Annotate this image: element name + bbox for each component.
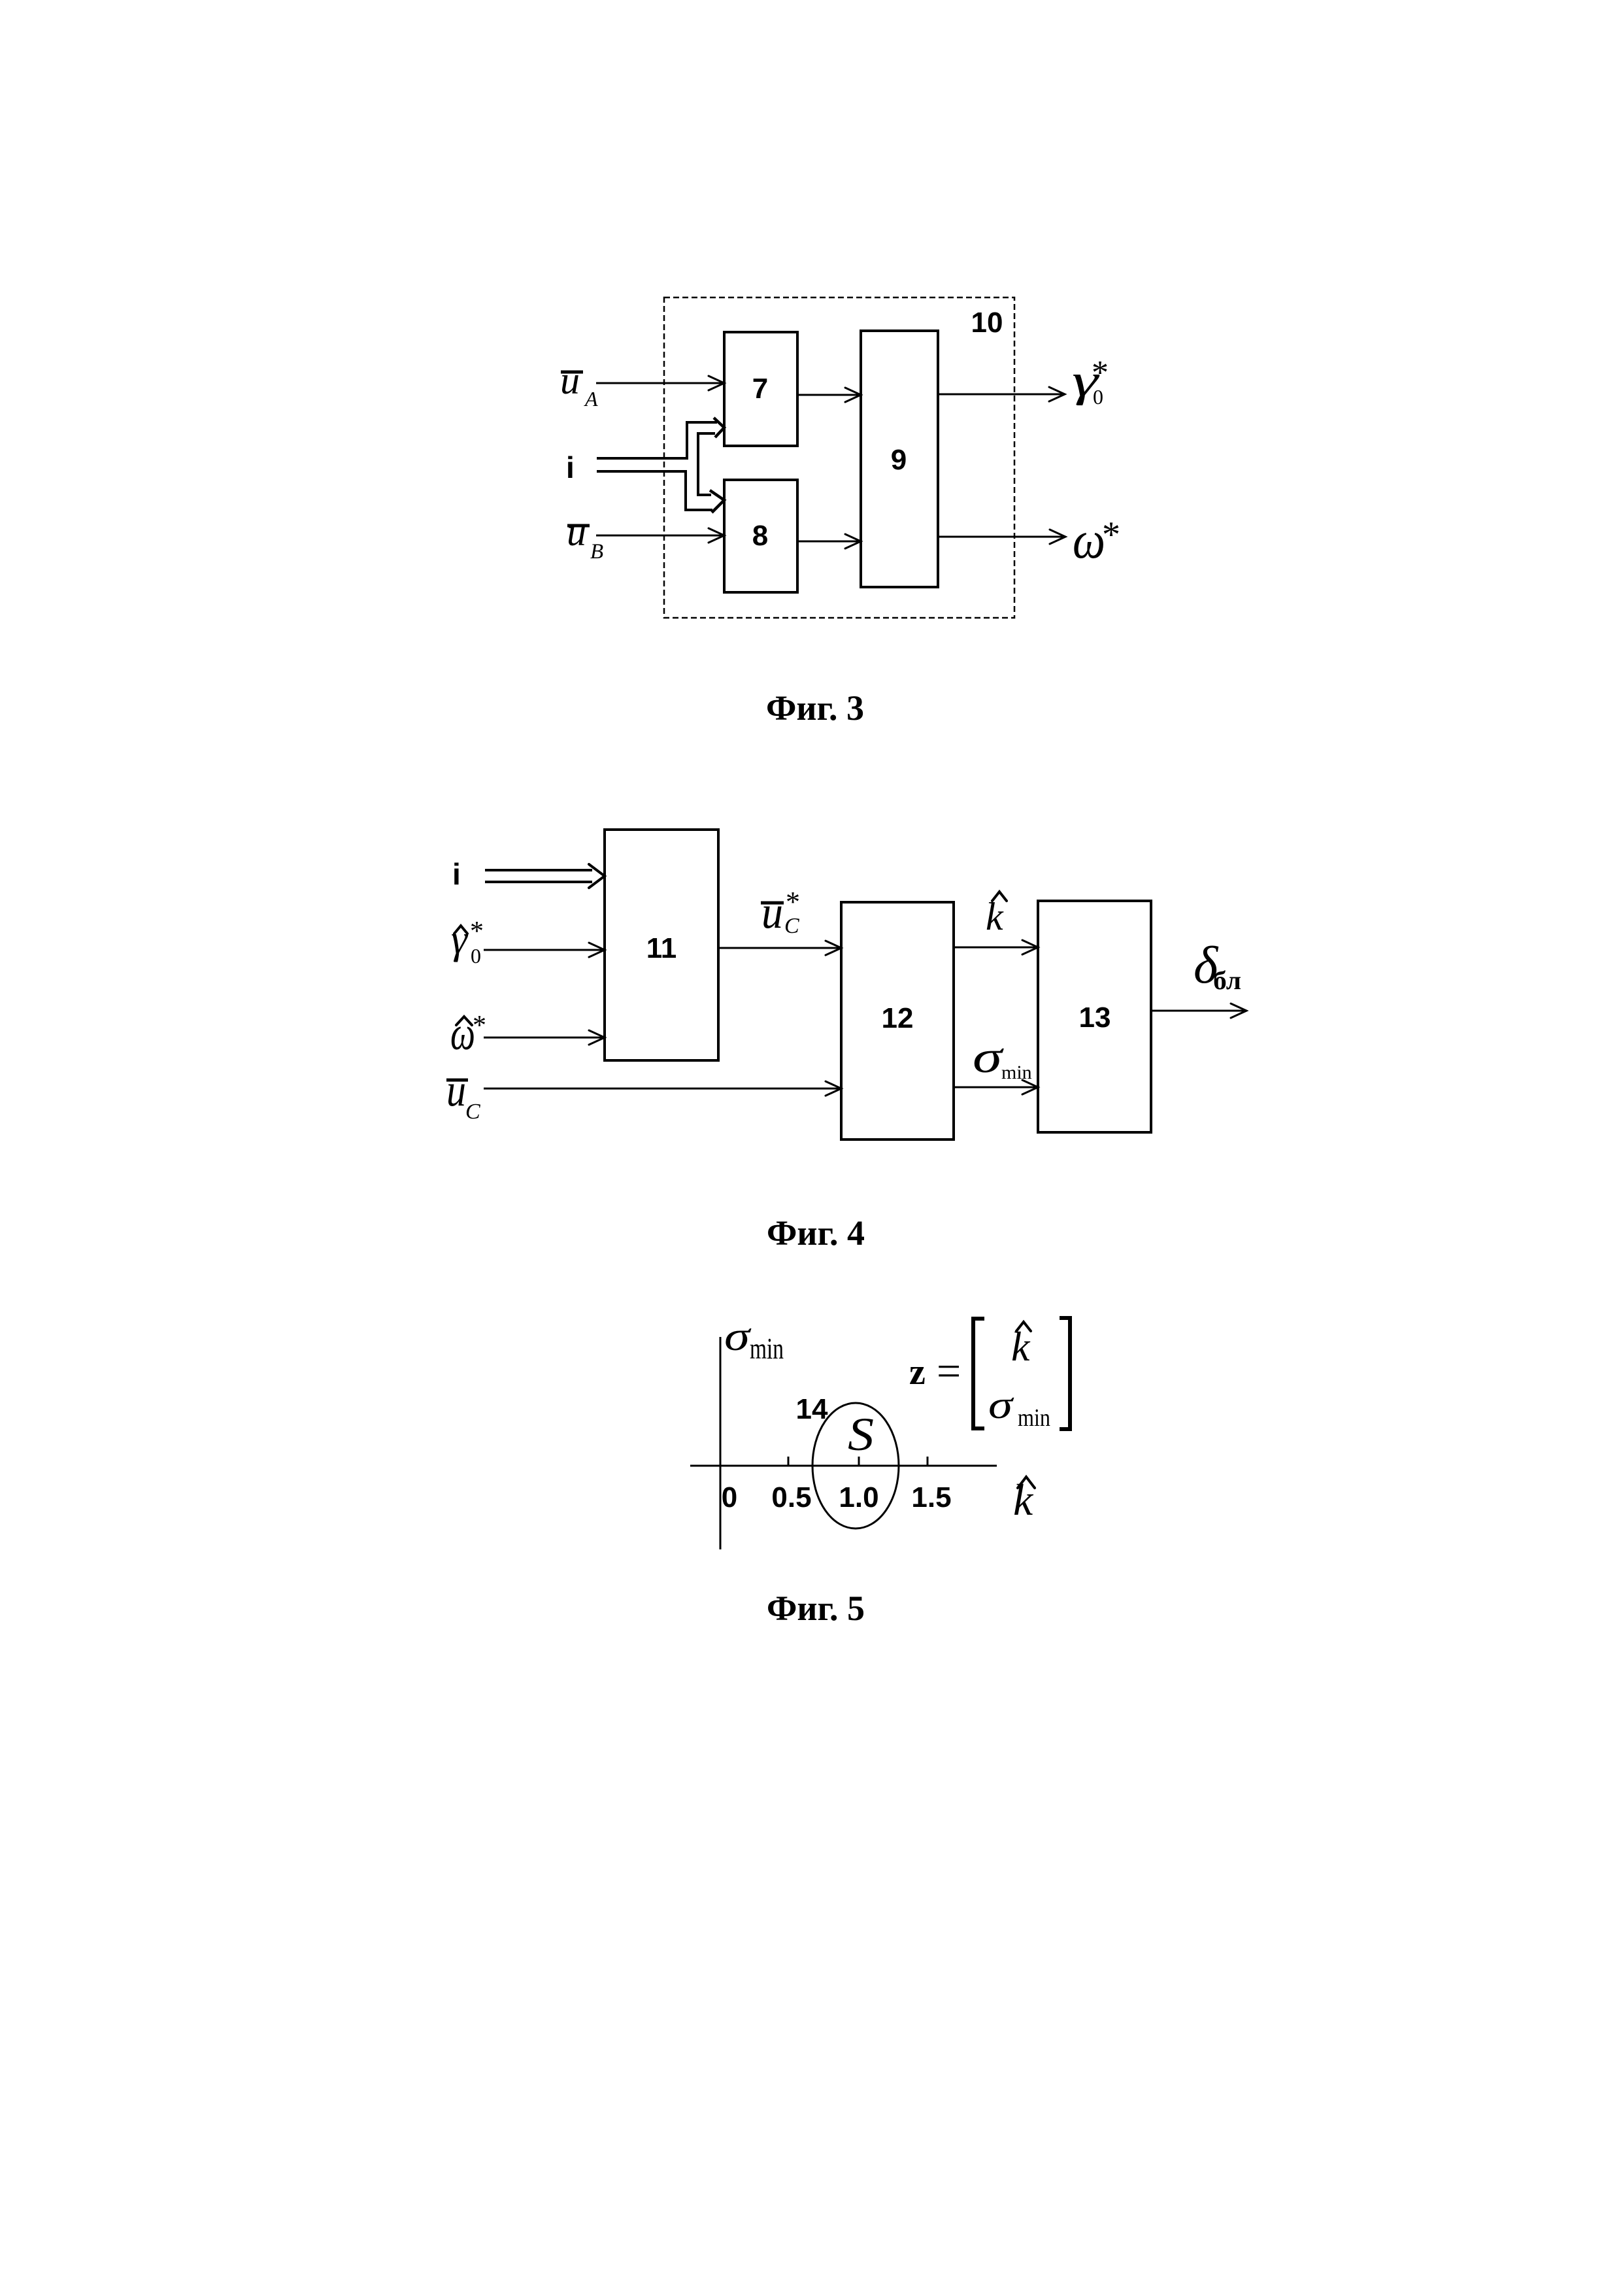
output label gamma0* (fig3) xyxy=(1072,354,1109,409)
svg-text:A: A xyxy=(584,387,598,411)
wire block 13 to output delta xyxy=(1151,1004,1246,1018)
wire k-hat block 12 to block 13 xyxy=(954,940,1038,954)
svg-text:8: 8 xyxy=(752,520,768,552)
wire sigma-min block 12 to block 13 xyxy=(954,1080,1038,1094)
svg-text:1.5: 1.5 xyxy=(911,1481,951,1513)
svg-text:9: 9 xyxy=(891,444,907,476)
svg-text:10: 10 xyxy=(971,307,1003,339)
axis label sigma-min xyxy=(724,1313,784,1365)
wire block 9 to output gamma0* xyxy=(938,387,1065,401)
block 9 xyxy=(861,331,938,587)
svg-text:1.0: 1.0 xyxy=(839,1481,878,1513)
svg-text:σ: σ xyxy=(988,1383,1014,1427)
wire gamma0* into block 11 xyxy=(484,943,605,957)
svg-text:0: 0 xyxy=(722,1481,737,1513)
svg-text:Фиг. 4: Фиг. 4 xyxy=(767,1213,865,1253)
svg-text:C: C xyxy=(465,1100,480,1124)
ellipse region S (element 14) xyxy=(812,1403,899,1528)
wire uB to block 8 xyxy=(596,528,724,543)
svg-text:γ: γ xyxy=(451,917,469,962)
block 12 xyxy=(841,902,954,1140)
svg-text:*: * xyxy=(473,1011,486,1041)
label sigma-min between block 12 and 13 xyxy=(973,1032,1032,1083)
svg-text:11: 11 xyxy=(646,932,677,964)
wire uC* block 11 to block 12 xyxy=(718,941,841,955)
vertical axis sigma-min (fig5) xyxy=(720,1337,722,1549)
wire block 9 to output omega* xyxy=(938,530,1065,544)
block 7 xyxy=(724,332,797,446)
output label omega* (fig3) xyxy=(1073,510,1120,569)
svg-text:u: u xyxy=(446,1065,466,1116)
svg-text:=: = xyxy=(937,1347,961,1395)
svg-text:*: * xyxy=(470,917,484,947)
wire uA to block 7 xyxy=(596,376,724,390)
svg-text:13: 13 xyxy=(1079,1002,1111,1034)
block 8 xyxy=(724,480,797,592)
dashed boundary box (unit 10, fig3) xyxy=(664,297,1014,618)
svg-text:ω: ω xyxy=(1073,510,1105,569)
bus i double-line with split to blocks 7 and 8 xyxy=(597,418,724,513)
input label gamma-hat 0 * (fig4) xyxy=(451,917,484,968)
svg-text:σ: σ xyxy=(973,1032,1004,1083)
svg-text:min: min xyxy=(750,1332,784,1365)
input label uA (vector u sub A) xyxy=(560,359,598,411)
input label uB (vector u sub B) xyxy=(567,511,603,564)
horizontal axis k-hat (fig5) xyxy=(690,1465,997,1467)
svg-text:0: 0 xyxy=(471,944,481,968)
svg-text:ω: ω xyxy=(450,1007,475,1060)
wire uC into block 12 xyxy=(484,1081,841,1096)
svg-text:z: z xyxy=(909,1352,926,1393)
svg-text:σ: σ xyxy=(724,1313,752,1359)
svg-text:14: 14 xyxy=(796,1393,828,1425)
svg-text:min: min xyxy=(1001,1062,1032,1083)
svg-text:u: u xyxy=(567,511,586,554)
svg-text:бл: бл xyxy=(1213,966,1241,995)
svg-text:0: 0 xyxy=(1093,385,1103,409)
svg-text:S: S xyxy=(848,1408,874,1460)
wire omega* into block 11 xyxy=(484,1030,605,1045)
svg-text:*: * xyxy=(1102,515,1120,555)
svg-text:0.5: 0.5 xyxy=(771,1481,811,1513)
svg-text:k: k xyxy=(986,895,1004,938)
tick 0.5 xyxy=(788,1457,790,1466)
svg-text:C: C xyxy=(784,914,799,938)
label k-hat between block 12 and 13 xyxy=(986,892,1007,938)
input label uC (vector u sub C) fig4 xyxy=(446,1065,480,1124)
svg-text:B: B xyxy=(590,540,603,564)
svg-text:i: i xyxy=(566,450,575,484)
svg-text:k: k xyxy=(1011,1323,1031,1370)
wire block 8 to block 9 xyxy=(797,534,861,549)
wire block 7 to block 9 xyxy=(797,388,861,402)
bus i double-line into block 11 xyxy=(485,864,605,888)
svg-text:u: u xyxy=(761,887,783,938)
svg-text:u: u xyxy=(560,359,580,402)
axis label k-hat xyxy=(1013,1475,1035,1525)
input label omega-hat * (fig4) xyxy=(450,1007,486,1060)
equation z = [k-hat ; sigma-min] xyxy=(909,1318,1070,1432)
svg-text:Фиг. 3: Фиг. 3 xyxy=(766,688,864,728)
svg-text:7: 7 xyxy=(752,373,768,405)
svg-text:12: 12 xyxy=(882,1002,914,1034)
svg-text:i: i xyxy=(452,857,461,891)
svg-text:Фиг. 5: Фиг. 5 xyxy=(767,1589,865,1628)
tick 1.5 xyxy=(927,1457,929,1466)
tick 1.0 xyxy=(858,1457,860,1466)
svg-text:min: min xyxy=(1018,1404,1050,1432)
label uC* between block 11 and 12 xyxy=(761,886,800,938)
block 11 xyxy=(605,830,718,1060)
output label delta-bl (fig4) xyxy=(1194,937,1241,995)
svg-text:*: * xyxy=(786,886,800,918)
block 13 xyxy=(1038,901,1151,1132)
